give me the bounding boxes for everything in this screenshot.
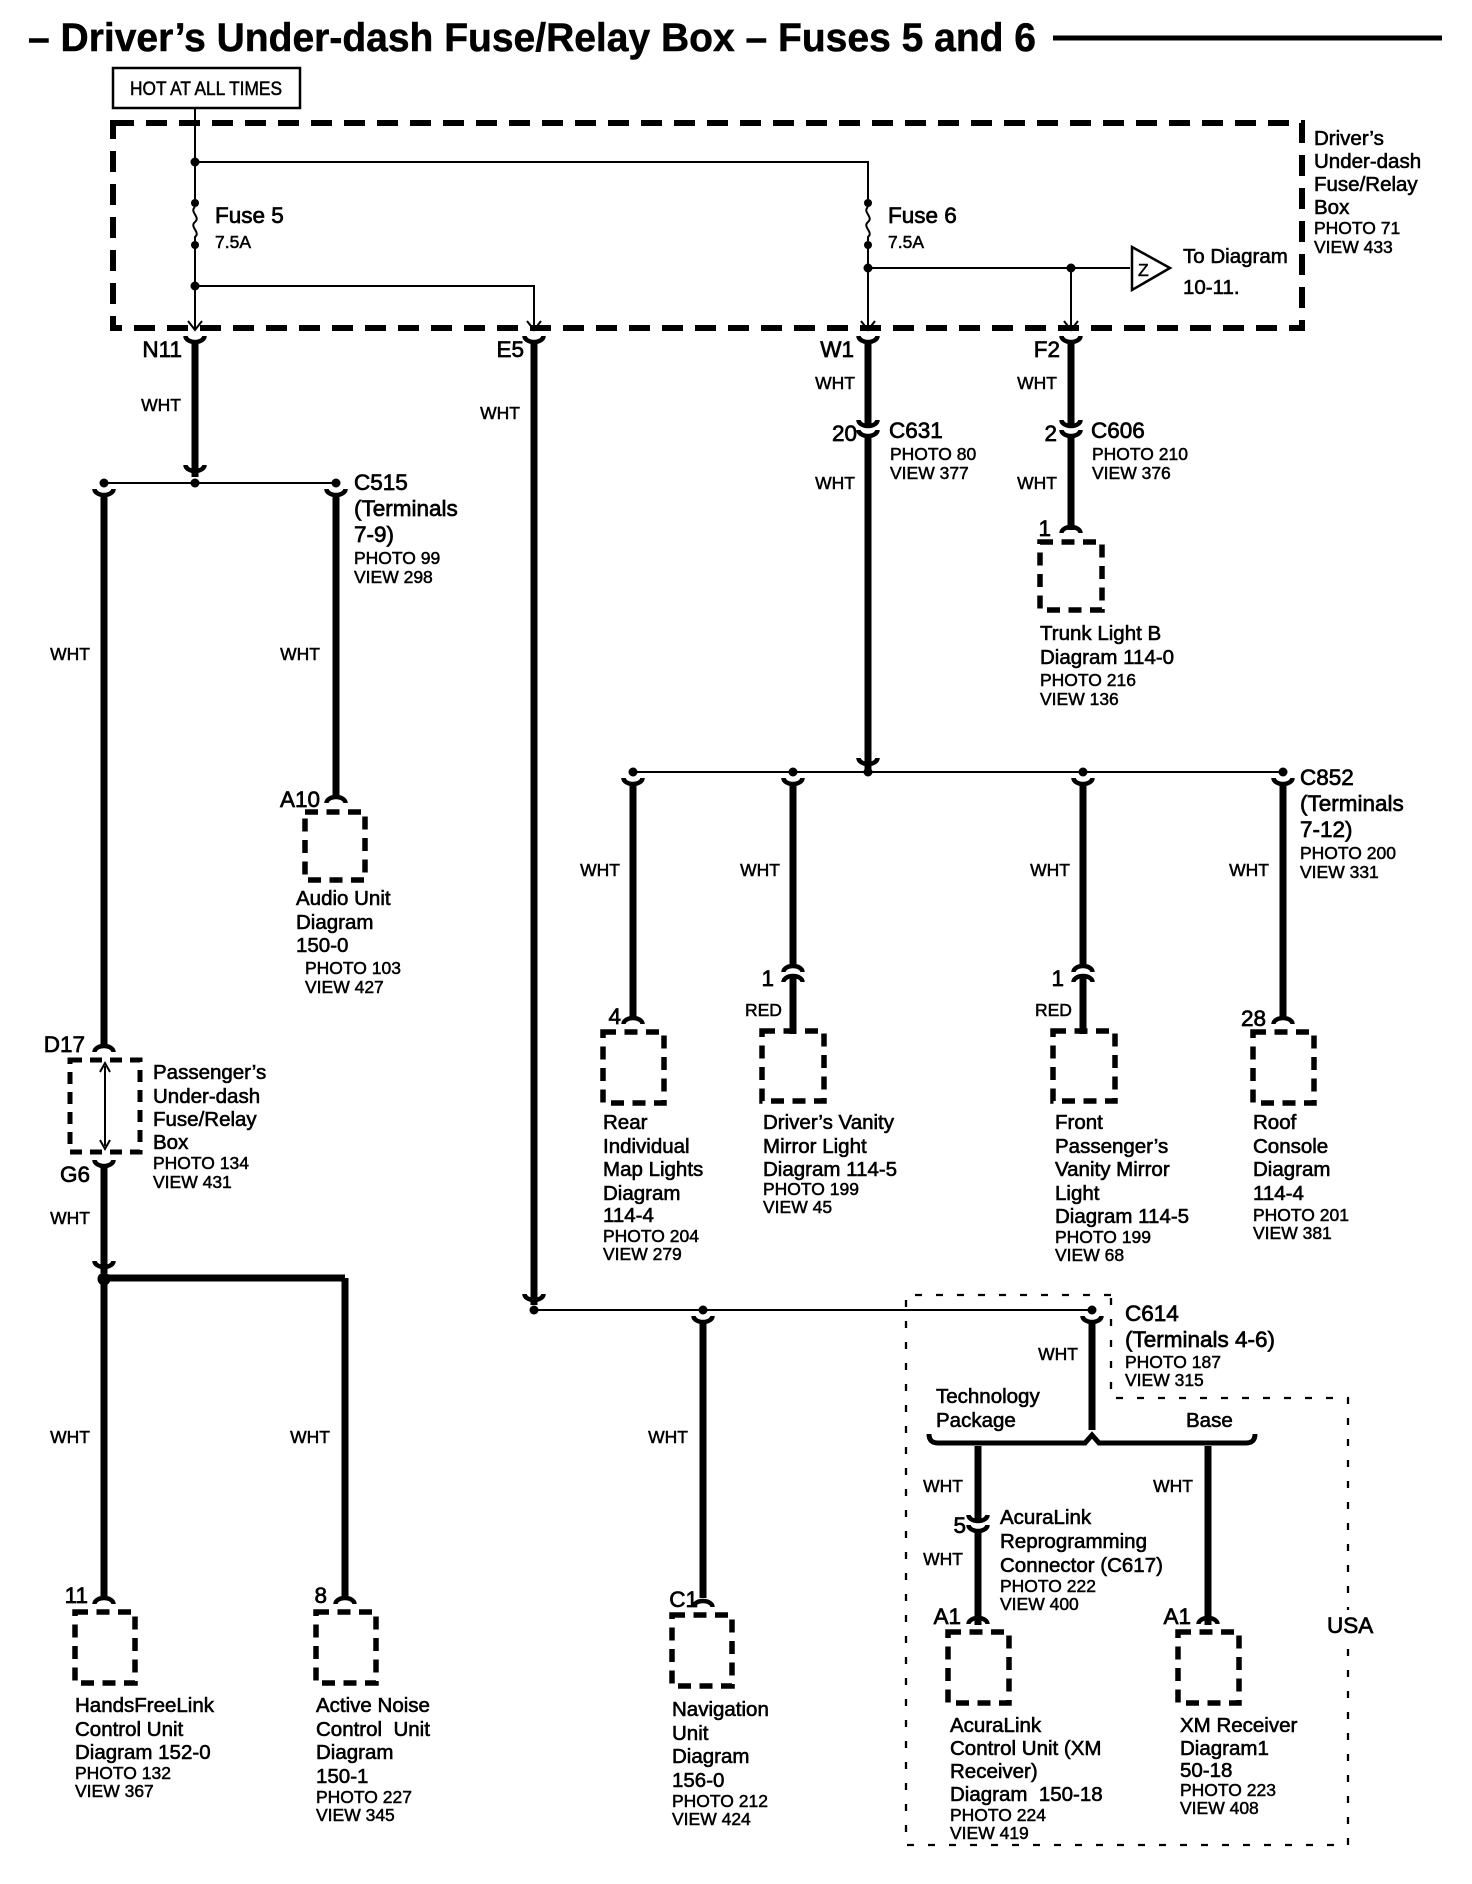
svg-text:WHT: WHT xyxy=(290,1427,330,1447)
svg-text:Driver’s Vanity: Driver’s Vanity xyxy=(763,1111,895,1134)
wire E5 (WHT) long xyxy=(531,344,538,1305)
svg-text:Technology: Technology xyxy=(936,1385,1040,1408)
node dots on branch xyxy=(100,479,109,488)
in-line connector C617 terminal 5 xyxy=(969,1511,988,1531)
split bracket xyxy=(929,1434,1255,1443)
svg-text:USA: USA xyxy=(1327,1613,1373,1638)
connector cup C515 branch xyxy=(327,489,346,495)
svg-text:VIEW 424: VIEW 424 xyxy=(672,1809,751,1829)
svg-text:114-4: 114-4 xyxy=(603,1204,654,1227)
svg-text:VIEW 408: VIEW 408 xyxy=(1180,1798,1259,1818)
svg-text:VIEW 298: VIEW 298 xyxy=(354,567,433,587)
connector cup N11 xyxy=(186,336,205,342)
component box: Navigation Unit xyxy=(672,1615,732,1686)
component box: HandsFreeLink Control Unit xyxy=(75,1612,135,1683)
terminal dome into navigation xyxy=(694,1601,713,1607)
wire driver vanity (RED) xyxy=(790,986,797,1034)
label: Audio Unit xyxy=(296,887,401,997)
svg-text:Diagram 114-5: Diagram 114-5 xyxy=(763,1158,897,1181)
label: HandsFreeLink Control Unit xyxy=(75,1694,215,1801)
svg-text:(Terminals 4-6): (Terminals 4-6) xyxy=(1125,1327,1275,1352)
wire navigation (WHT) xyxy=(700,1322,707,1598)
label: Navigation Unit xyxy=(672,1698,769,1829)
svg-text:G6: G6 xyxy=(60,1162,90,1187)
svg-text:WHT: WHT xyxy=(815,473,855,493)
svg-text:VIEW 367: VIEW 367 xyxy=(75,1781,154,1801)
connector cup C614 xyxy=(1083,1316,1102,1322)
svg-text:8: 8 xyxy=(314,1583,327,1608)
svg-text:Roof: Roof xyxy=(1253,1111,1297,1134)
Driver's Under-dash Fuse/Relay Box (dashed outline) xyxy=(113,123,1302,328)
fuse F5 (Fuse 5, 7.5A) xyxy=(191,199,284,252)
terminal dome into audio unit xyxy=(327,797,346,803)
component box: Front Passenger's Vanity Mirror Light xyxy=(1053,1031,1115,1101)
svg-text:Console: Console xyxy=(1253,1135,1328,1158)
svg-text:W1: W1 xyxy=(820,337,854,362)
wire: bus from junction to fuse 6 xyxy=(195,162,868,199)
svg-text:E5: E5 xyxy=(496,337,524,362)
connector label C852 xyxy=(1300,765,1404,882)
label: Driver's Under-dash Fuse/Relay Box xyxy=(1314,127,1421,257)
thick branch wire to active noise xyxy=(104,1275,345,1282)
arrow into W1 xyxy=(861,321,875,330)
rear map lights drop: cup xyxy=(624,778,643,784)
male end N11 xyxy=(186,465,205,471)
wire acuralink drop (WHT) xyxy=(975,1446,982,1513)
svg-text:PHOTO 222: PHOTO 222 xyxy=(1000,1576,1096,1596)
svg-text:WHT: WHT xyxy=(740,860,780,880)
svg-text:Individual: Individual xyxy=(603,1135,690,1158)
connector cup F2 xyxy=(1062,336,1081,342)
terminal dome into handsfreelink xyxy=(95,1598,114,1604)
label: Roof Console xyxy=(1253,1111,1349,1243)
svg-text:PHOTO 99: PHOTO 99 xyxy=(354,548,440,568)
svg-text:5: 5 xyxy=(953,1513,966,1538)
wire handsfreelink (WHT) xyxy=(101,1278,108,1596)
svg-text:1: 1 xyxy=(761,966,774,991)
front vanity drop: cup xyxy=(1074,778,1093,784)
svg-text:VIEW 315: VIEW 315 xyxy=(1125,1370,1204,1390)
svg-text:Driver’s: Driver’s xyxy=(1314,127,1384,150)
svg-text:(Terminals: (Terminals xyxy=(1300,791,1404,816)
in-line connector terminal 1 (flipped) front vanity xyxy=(1074,966,1093,986)
connector label C614 xyxy=(1125,1301,1275,1390)
svg-text:1: 1 xyxy=(1051,966,1064,991)
svg-text:Diagram: Diagram xyxy=(316,1741,393,1764)
svg-text:Connector (C617): Connector (C617) xyxy=(1000,1554,1163,1577)
svg-text:VIEW 136: VIEW 136 xyxy=(1040,689,1119,709)
node: junction dot fuse5 output xyxy=(191,282,200,291)
node dot E5 bottom junction xyxy=(530,1306,539,1315)
USA dashed region xyxy=(906,1295,1348,1845)
svg-text:Receiver): Receiver) xyxy=(950,1760,1038,1783)
svg-text:VIEW 345: VIEW 345 xyxy=(316,1805,395,1825)
svg-text:Diagram 114-0: Diagram 114-0 xyxy=(1040,646,1174,669)
svg-text:Unit: Unit xyxy=(672,1722,709,1745)
label: AcuraLink Control Unit (XM Receiver) xyxy=(950,1714,1103,1843)
svg-text:WHT: WHT xyxy=(648,1427,688,1447)
node junction dot G6 branch xyxy=(98,1273,111,1286)
svg-text:28: 28 xyxy=(1241,1006,1266,1031)
wire: branch down to F2 xyxy=(1070,268,1072,330)
svg-text:HOT AT ALL TIMES: HOT AT ALL TIMES xyxy=(130,79,282,100)
svg-text:50-18: 50-18 xyxy=(1180,1759,1232,1782)
svg-text:Vanity Mirror: Vanity Mirror xyxy=(1055,1158,1170,1181)
male end E5 xyxy=(525,1294,544,1300)
wire: fuse 5 output down to N11 xyxy=(194,245,196,323)
svg-text:Audio Unit: Audio Unit xyxy=(296,887,391,910)
internal arrow (both ends) in passenger box xyxy=(100,1063,110,1149)
svg-text:VIEW 427: VIEW 427 xyxy=(305,977,384,997)
svg-text:Control Unit: Control Unit xyxy=(316,1718,430,1741)
component box: Trunk Light B xyxy=(1040,542,1102,610)
connector cup W1 xyxy=(859,336,878,342)
svg-text:PHOTO 204: PHOTO 204 xyxy=(603,1226,699,1246)
label Technology Package xyxy=(936,1385,1040,1432)
svg-text:Diagram 150-18: Diagram 150-18 xyxy=(950,1783,1103,1806)
svg-text:N11: N11 xyxy=(142,337,182,362)
wire left branch (WHT) down to D17 xyxy=(101,495,108,1048)
terminal dome into trunk light xyxy=(1062,527,1081,533)
terminal dome into passenger fuse box xyxy=(95,1046,114,1052)
svg-text:– Driver’s Under-dash Fuse/Rel: – Driver’s Under-dash Fuse/Relay Box – F… xyxy=(28,16,1036,60)
svg-text:VIEW 68: VIEW 68 xyxy=(1055,1245,1124,1265)
title rule line xyxy=(1053,36,1442,41)
svg-text:7-9): 7-9) xyxy=(354,522,394,547)
svg-text:VIEW 381: VIEW 381 xyxy=(1253,1223,1332,1243)
svg-text:PHOTO 199: PHOTO 199 xyxy=(763,1179,859,1199)
svg-text:4: 4 xyxy=(608,1004,621,1029)
label: Front Passenger's Vanity Mirror Light xyxy=(1055,1111,1189,1265)
terminal dome into active noise xyxy=(336,1598,355,1604)
wire F2 upper (WHT) xyxy=(1068,344,1075,418)
svg-text:Mirror Light: Mirror Light xyxy=(763,1135,867,1158)
svg-text:VIEW 419: VIEW 419 xyxy=(950,1823,1029,1843)
component box: Roof Console xyxy=(1253,1032,1314,1103)
fuse F6 (Fuse 6, 7.5A) xyxy=(864,199,957,252)
wire front vanity (WHT) xyxy=(1080,784,1087,968)
connector cup navigation xyxy=(694,1316,713,1322)
svg-text:Active Noise: Active Noise xyxy=(316,1694,430,1717)
svg-text:PHOTO 200: PHOTO 200 xyxy=(1300,843,1396,863)
wire C614 (WHT) xyxy=(1089,1322,1096,1430)
svg-text:Map Lights: Map Lights xyxy=(603,1158,703,1181)
svg-text:C852: C852 xyxy=(1300,765,1354,790)
component box: XM Receiver xyxy=(1178,1632,1239,1703)
svg-text:A1: A1 xyxy=(1163,1604,1191,1629)
svg-text:WHT: WHT xyxy=(1017,473,1057,493)
wire W1 lower (WHT) xyxy=(865,436,872,769)
svg-text:D17: D17 xyxy=(44,1032,85,1057)
wire: branch to Z arrow xyxy=(868,267,1130,269)
svg-text:Fuse 6: Fuse 6 xyxy=(888,203,957,228)
in-line connector C631 terminal 20 xyxy=(859,416,878,436)
svg-text:WHT: WHT xyxy=(50,1427,90,1447)
svg-text:PHOTO 224: PHOTO 224 xyxy=(950,1805,1046,1825)
svg-text:Package: Package xyxy=(936,1409,1016,1432)
component box: Driver's Vanity Mirror Light xyxy=(762,1031,824,1101)
component box: Active Noise Control Unit xyxy=(316,1612,376,1683)
connector label C606 xyxy=(1091,418,1188,483)
svg-text:WHT: WHT xyxy=(580,860,620,880)
svg-text:WHT: WHT xyxy=(1229,860,1269,880)
svg-text:Rear: Rear xyxy=(603,1111,648,1134)
node: junction dot at fuse5 feed xyxy=(191,158,200,167)
svg-text:C1: C1 xyxy=(669,1587,698,1612)
svg-text:VIEW 376: VIEW 376 xyxy=(1092,463,1171,483)
svg-text:Front: Front xyxy=(1055,1111,1103,1134)
svg-text:Base: Base xyxy=(1186,1409,1233,1432)
svg-text:To Diagram: To Diagram xyxy=(1183,245,1288,268)
wire driver vanity (WHT) xyxy=(790,784,797,968)
svg-text:Fuse/Relay: Fuse/Relay xyxy=(153,1108,257,1131)
svg-text:Fuse/Relay: Fuse/Relay xyxy=(1314,173,1418,196)
svg-text:VIEW 45: VIEW 45 xyxy=(763,1197,832,1217)
label: Driver's Vanity Mirror Light xyxy=(763,1111,897,1217)
component box: Audio Unit xyxy=(305,812,365,880)
terminal dome into acuralink xyxy=(969,1618,988,1624)
svg-text:VIEW 400: VIEW 400 xyxy=(1000,1594,1079,1614)
svg-text:PHOTO 201: PHOTO 201 xyxy=(1253,1205,1349,1225)
branch line under N11 xyxy=(104,482,336,484)
wire: fuse 6 output xyxy=(867,245,869,330)
svg-text:Under-dash: Under-dash xyxy=(1314,150,1421,173)
svg-text:WHT: WHT xyxy=(1038,1344,1078,1364)
svg-text:AcuraLink: AcuraLink xyxy=(950,1714,1042,1737)
component box: Passenger's Under-dash Fuse/Relay Box xyxy=(70,1060,140,1152)
svg-text:WHT: WHT xyxy=(50,644,90,664)
svg-text:Diagram1: Diagram1 xyxy=(1180,1737,1269,1760)
svg-text:Diagram 114-5: Diagram 114-5 xyxy=(1055,1205,1189,1228)
svg-text:PHOTO 132: PHOTO 132 xyxy=(75,1763,171,1783)
svg-text:VIEW 331: VIEW 331 xyxy=(1300,862,1379,882)
svg-text:WHT: WHT xyxy=(1153,1476,1193,1496)
svg-text:WHT: WHT xyxy=(480,403,520,423)
svg-text:7.5A: 7.5A xyxy=(215,232,251,252)
svg-text:114-4: 114-4 xyxy=(1253,1182,1304,1205)
component box: Rear Individual Map Lights xyxy=(603,1032,664,1103)
svg-text:1: 1 xyxy=(1038,516,1051,541)
connector label C631 xyxy=(889,418,977,483)
male end W1 xyxy=(859,758,878,764)
connector cup E5 xyxy=(525,336,544,342)
svg-text:Passenger’s: Passenger’s xyxy=(153,1061,266,1084)
label: Rear Individual Map Lights xyxy=(603,1111,703,1264)
svg-text:VIEW 279: VIEW 279 xyxy=(603,1244,682,1264)
label: Trunk Light B xyxy=(1040,622,1174,709)
in-line connector terminal 1 (flipped) driver vanity xyxy=(784,966,803,986)
node dot C614 xyxy=(1088,1306,1097,1315)
label: XM Receiver xyxy=(1180,1714,1298,1818)
svg-text:7-12): 7-12) xyxy=(1300,817,1353,842)
svg-text:WHT: WHT xyxy=(1030,860,1070,880)
roof console drop: cup xyxy=(1274,778,1293,784)
svg-text:XM Receiver: XM Receiver xyxy=(1180,1714,1298,1737)
svg-text:Control Unit (XM: Control Unit (XM xyxy=(950,1737,1102,1760)
wire N11 (WHT) xyxy=(192,344,199,477)
svg-text:C515: C515 xyxy=(354,470,408,495)
label USA xyxy=(1322,1610,1380,1638)
svg-text:Passenger’s: Passenger’s xyxy=(1055,1135,1168,1158)
svg-text:C631: C631 xyxy=(889,418,943,443)
wire: branch to E5 xyxy=(195,286,534,323)
svg-text:PHOTO 199: PHOTO 199 xyxy=(1055,1227,1151,1247)
svg-text:C614: C614 xyxy=(1125,1301,1179,1326)
svg-text:Diagram: Diagram xyxy=(296,911,373,934)
wire: HOT feed down to fuse 5 xyxy=(194,108,196,199)
svg-text:20: 20 xyxy=(832,421,857,446)
svg-text:2: 2 xyxy=(1044,421,1057,446)
svg-text:AcuraLink: AcuraLink xyxy=(1000,1506,1092,1529)
svg-text:VIEW 431: VIEW 431 xyxy=(153,1172,232,1192)
svg-text:Control Unit: Control Unit xyxy=(75,1718,184,1741)
svg-text:WHT: WHT xyxy=(1017,373,1057,393)
node: junction dot fuse6 output xyxy=(864,264,873,273)
arrow into F2 xyxy=(1064,321,1078,330)
svg-text:156-0: 156-0 xyxy=(672,1769,724,1792)
wire G6 (WHT) xyxy=(101,1166,108,1273)
svg-text:A10: A10 xyxy=(280,787,320,812)
node dots on bus xyxy=(629,768,638,777)
wire acuralink lower (WHT) xyxy=(975,1531,982,1625)
svg-text:7.5A: 7.5A xyxy=(888,232,924,252)
svg-text:PHOTO 71: PHOTO 71 xyxy=(1314,218,1400,238)
off-page arrow Z: To Diagram 10-11. xyxy=(1132,245,1288,299)
svg-text:RED: RED xyxy=(1035,1000,1072,1020)
wire xm receiver drop (WHT) xyxy=(1205,1446,1212,1625)
svg-text:Diagram: Diagram xyxy=(1253,1158,1330,1181)
svg-text:10-11.: 10-11. xyxy=(1183,276,1240,299)
svg-text:150-0: 150-0 xyxy=(296,934,348,957)
connector label C515 xyxy=(354,470,458,587)
svg-text:(Terminals: (Terminals xyxy=(354,496,458,521)
wire active noise (WHT) xyxy=(342,1278,349,1596)
svg-text:PHOTO 212: PHOTO 212 xyxy=(672,1791,768,1811)
svg-text:VIEW 377: VIEW 377 xyxy=(890,463,969,483)
label: Active Noise Control Unit xyxy=(316,1694,430,1825)
svg-text:PHOTO 216: PHOTO 216 xyxy=(1040,670,1136,690)
svg-text:PHOTO 227: PHOTO 227 xyxy=(316,1787,412,1807)
svg-text:Diagram: Diagram xyxy=(672,1745,749,1768)
map lights bus line xyxy=(633,771,1283,773)
svg-text:F2: F2 xyxy=(1034,337,1060,362)
svg-text:Light: Light xyxy=(1055,1182,1100,1205)
driver vanity drop: cup xyxy=(784,778,803,784)
label: AcuraLink Reprogramming Connector xyxy=(1000,1506,1163,1614)
in-line connector C606 terminal 2 xyxy=(1062,416,1081,436)
connector cup G6 xyxy=(95,1160,114,1166)
svg-text:Z: Z xyxy=(1138,260,1149,280)
svg-text:RED: RED xyxy=(745,1000,782,1020)
navigation bus line xyxy=(534,1309,1092,1311)
svg-text:Diagram 152-0: Diagram 152-0 xyxy=(75,1741,211,1764)
wire roof console (WHT) xyxy=(1280,784,1287,1020)
terminal dome into rear map lights xyxy=(624,1018,643,1024)
svg-text:WHT: WHT xyxy=(50,1208,90,1228)
svg-text:HandsFreeLink: HandsFreeLink xyxy=(75,1694,215,1717)
svg-text:PHOTO 134: PHOTO 134 xyxy=(153,1153,249,1173)
svg-text:WHT: WHT xyxy=(923,1549,963,1569)
HOT AT ALL TIMES box xyxy=(113,68,300,108)
terminal dome into xm receiver xyxy=(1199,1618,1218,1624)
svg-text:Fuse 5: Fuse 5 xyxy=(215,203,284,228)
svg-text:Box: Box xyxy=(153,1131,189,1154)
svg-text:PHOTO 223: PHOTO 223 xyxy=(1180,1780,1276,1800)
component box: AcuraLink Control Unit xyxy=(948,1632,1009,1703)
wire W1 upper (WHT) xyxy=(865,344,872,418)
svg-text:PHOTO 103: PHOTO 103 xyxy=(305,958,401,978)
arrow into N11 xyxy=(188,286,202,330)
svg-text:WHT: WHT xyxy=(815,373,855,393)
wire rear map lights (WHT) xyxy=(630,784,637,1020)
node: junction dot F2 branch xyxy=(1067,264,1076,273)
svg-text:PHOTO 80: PHOTO 80 xyxy=(890,444,977,464)
node dot navigation drop xyxy=(699,1306,708,1315)
svg-text:WHT: WHT xyxy=(141,395,181,415)
svg-text:Diagram: Diagram xyxy=(603,1182,680,1205)
svg-text:11: 11 xyxy=(65,1583,88,1608)
connector cup left branch xyxy=(95,489,114,495)
svg-text:PHOTO 187: PHOTO 187 xyxy=(1125,1352,1221,1372)
wire front vanity (RED) xyxy=(1080,986,1087,1034)
svg-text:Box: Box xyxy=(1314,196,1350,219)
svg-text:WHT: WHT xyxy=(280,644,320,664)
svg-text:Reprogramming: Reprogramming xyxy=(1000,1530,1147,1553)
svg-text:C606: C606 xyxy=(1091,418,1145,443)
terminal dome into roof console xyxy=(1274,1018,1293,1024)
svg-text:PHOTO 210: PHOTO 210 xyxy=(1092,444,1188,464)
male end G6 wire xyxy=(95,1261,114,1267)
svg-text:WHT: WHT xyxy=(923,1476,963,1496)
svg-text:150-1: 150-1 xyxy=(316,1765,368,1788)
arrow into E5 xyxy=(527,286,541,330)
svg-text:Trunk Light B: Trunk Light B xyxy=(1040,622,1161,645)
svg-text:Under-dash: Under-dash xyxy=(153,1085,260,1108)
svg-text:VIEW 433: VIEW 433 xyxy=(1314,237,1393,257)
svg-text:Navigation: Navigation xyxy=(672,1698,769,1721)
svg-text:A1: A1 xyxy=(933,1604,961,1629)
wire F2 lower (WHT) xyxy=(1068,436,1075,530)
wire C515 branch (WHT) xyxy=(333,495,340,795)
label: Passenger's Under-dash Fuse/Relay Box xyxy=(153,1061,266,1192)
